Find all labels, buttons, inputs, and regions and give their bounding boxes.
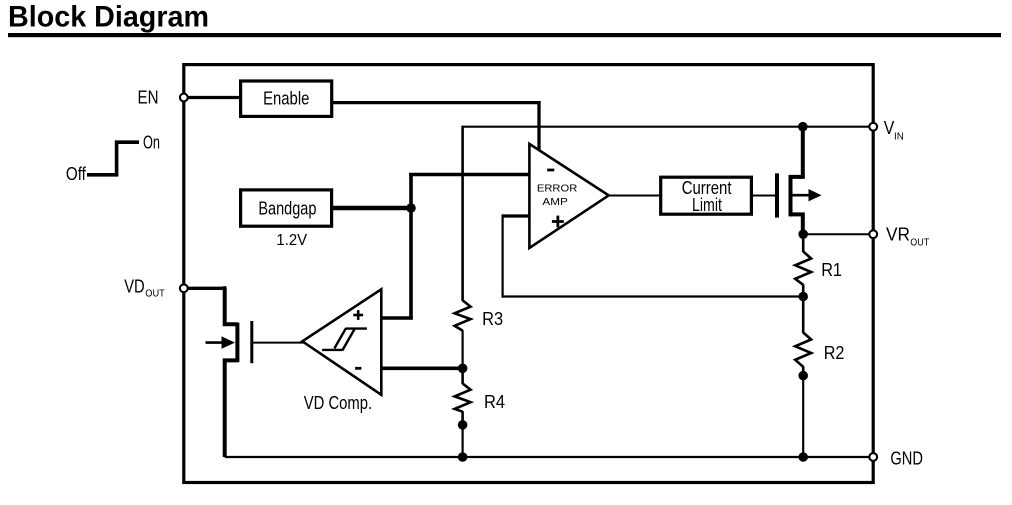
svg-text:R3: R3 — [482, 309, 503, 329]
wire R4 lead top — [461, 368, 464, 384]
wire to VD comp plus input — [380, 316, 413, 320]
wire V_IN rail — [463, 126, 874, 128]
svg-text:OUT: OUT — [910, 237, 929, 249]
transistor Q1 pass PMOS : gate bar — [775, 173, 779, 217]
wire VD comp minus input — [380, 366, 462, 370]
wire VD comp output to gate — [253, 342, 304, 344]
svg-text:VD Comp.: VD Comp. — [304, 393, 372, 413]
wire bandgap node down — [409, 207, 413, 320]
svg-text:Enable: Enable — [263, 89, 309, 109]
svg-text:R4: R4 — [484, 392, 505, 412]
comparator U2 hysteresis symbol — [346, 327, 367, 329]
node R3 R4 junction — [458, 364, 468, 374]
svg-text:VD: VD — [124, 277, 145, 297]
terminal VR_OUT — [869, 230, 877, 238]
title underline — [8, 33, 1001, 37]
wire feedback horizontal — [502, 295, 804, 297]
box Enable — [241, 81, 332, 116]
svg-text:VR: VR — [886, 225, 910, 245]
wire to error amp minus input — [409, 173, 530, 177]
transistor Q2 arrow — [206, 341, 224, 344]
svg-text:V: V — [884, 118, 895, 138]
transistor Q2 channel bar — [235, 323, 239, 363]
box Bandgap — [241, 190, 332, 226]
svg-text:On: On — [143, 133, 160, 153]
resistor R1 — [795, 252, 811, 285]
terminal GND — [869, 453, 877, 461]
node R4 GND rail junction — [458, 452, 468, 462]
node bandgap junction — [406, 203, 416, 213]
wire feedback vertical — [502, 214, 504, 297]
op-amp U1 minus sign — [547, 169, 554, 172]
transistor Q2 gate bar — [250, 321, 253, 363]
op-amp U1 ERROR AMP — [529, 144, 608, 248]
node R2 bottom junction — [798, 371, 808, 381]
node R2 GND rail junction — [798, 452, 808, 462]
svg-text:OUT: OUT — [145, 288, 165, 300]
svg-text:EN: EN — [138, 88, 159, 108]
wire error amp output — [608, 195, 660, 197]
wire bandgap node up — [409, 173, 413, 210]
comparator U2 VD Comp — [302, 289, 381, 395]
wire R3 lead bottom — [462, 330, 464, 368]
svg-text:AMP: AMP — [542, 197, 568, 208]
wire R4 to GND rail — [462, 425, 464, 457]
wire R4 lead bottom — [461, 411, 464, 425]
comparator U2 plus sign — [353, 314, 363, 317]
terminal VD_OUT — [180, 284, 188, 292]
resistor R3 — [455, 300, 471, 330]
svg-text:1.2V: 1.2V — [276, 232, 307, 249]
wire Enable output vertical to error amp — [537, 101, 540, 152]
wire EN input — [186, 96, 240, 99]
transistor Q1 channel bar — [789, 175, 793, 217]
transistor Q1 source jog — [791, 127, 803, 177]
svg-text:Block Diagram: Block Diagram — [8, 1, 209, 34]
svg-text:Bandgap: Bandgap — [258, 199, 316, 219]
wire R1 lead top — [802, 234, 805, 252]
node V_IN junction — [798, 122, 808, 132]
resistor R4 — [455, 384, 471, 412]
svg-text:ERROR: ERROR — [537, 183, 577, 194]
transistor Q2 VD output FET : top lead — [225, 288, 238, 324]
svg-text:R1: R1 — [821, 260, 842, 280]
node feedback junction — [798, 292, 808, 302]
wire VR_OUT stub — [803, 233, 873, 235]
wire error amp plus input — [503, 214, 531, 217]
svg-text:Off: Off — [66, 164, 87, 184]
node VR_OUT junction — [798, 229, 808, 239]
main block border — [184, 65, 873, 483]
wire VD_OUT input — [186, 287, 226, 290]
svg-text:Limit: Limit — [692, 195, 722, 215]
wire Enable output horizontal — [332, 101, 541, 104]
wire R2 lead top — [802, 297, 805, 334]
node R4 bottom junction — [458, 420, 468, 430]
transistor Q2 bottom lead — [225, 360, 238, 457]
op-amp U1 plus sign — [552, 220, 564, 223]
resistor R2 — [795, 333, 811, 367]
svg-text:IN: IN — [894, 131, 904, 143]
transistor Q1 arrow — [793, 194, 811, 197]
comparator U2 minus sign — [355, 367, 361, 370]
wire R2 lead bottom — [802, 366, 805, 375]
wire R3 top vertical — [461, 126, 464, 301]
svg-text:R2: R2 — [824, 343, 845, 363]
wire Bandgap output — [332, 206, 411, 210]
node Off-On step symbol — [87, 142, 139, 175]
wire GND rail — [225, 456, 870, 458]
wire R2 to GND rail — [802, 376, 804, 457]
box Current Limit — [661, 177, 752, 214]
wire current limit to gate — [752, 195, 775, 197]
terminal EN — [180, 94, 188, 102]
terminal V_IN — [869, 123, 877, 131]
svg-text:GND: GND — [890, 448, 923, 468]
wire R1 lead bottom — [802, 284, 805, 296]
transistor Q1 drain jog — [791, 214, 803, 234]
